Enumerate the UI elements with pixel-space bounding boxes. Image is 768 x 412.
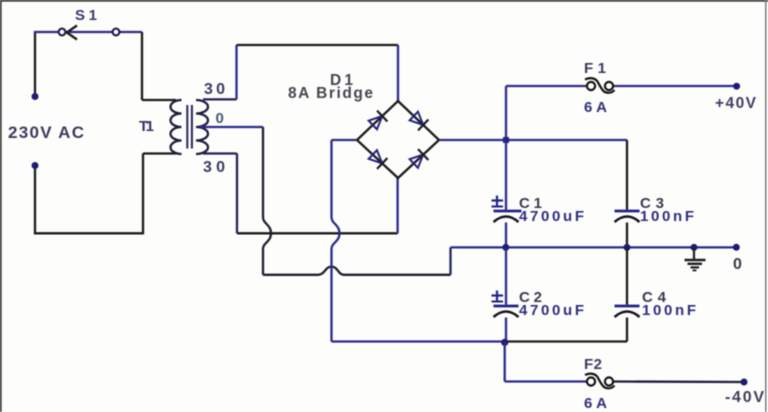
wire: bridge top vertical (397, 45, 399, 101)
svg-text:-40V: -40V (725, 389, 764, 406)
wire: F1 rail (506, 85, 586, 87)
transformer T1 secondary coil (196, 100, 208, 154)
wire: secondary bottom vertical down (236, 154, 238, 234)
svg-text:6A: 6A (584, 395, 607, 412)
wire: centre tap vertical with hop over row A (263, 127, 271, 275)
wire: F2 rail right (614, 380, 744, 383)
capacitor C3 (615, 211, 640, 222)
wire: bridge left stub (332, 139, 358, 141)
wire: C3 lead lower (626, 223, 628, 248)
svg-text:8A Bridge: 8A Bridge (288, 85, 373, 102)
wire: primary top vertical (141, 32, 143, 100)
wire: secondary top horizontal (203, 98, 237, 100)
node: junction C1/C2 on 0 rail (502, 244, 509, 251)
transformer T1 primary coil (171, 100, 182, 154)
wire: C2 lead lower (505, 318, 507, 343)
node: AC terminal lower dot (32, 162, 39, 169)
wire: bridge bottom vertical (396, 178, 398, 233)
node: junction C3/C4 on 0 rail (624, 244, 631, 251)
junction square at plus node (503, 137, 509, 143)
diode D1b top-right (409, 111, 429, 131)
capacitor C2 (492, 291, 519, 318)
wire: plus riser to F1 rail (505, 86, 507, 140)
wire: F2 rail left (505, 380, 586, 382)
diode D1c bottom-left (368, 149, 388, 169)
wire: minus rail vertical with hop over row A (332, 140, 340, 342)
wire: C4 lead upper (626, 247, 628, 304)
bridge rectifier D1 diamond (357, 101, 439, 178)
wire: top rail through switch (34, 31, 142, 33)
wire: bridge right stub to C3 column (439, 139, 627, 141)
wire: AC source left vertical lower (34, 166, 36, 234)
node: junction ground on 0 rail (691, 244, 698, 251)
node: junction minus rail (501, 339, 508, 346)
wire: bottom of primary loop (34, 232, 143, 234)
svg-text:F1: F1 (584, 60, 606, 77)
ground symbol (685, 247, 706, 270)
wire: primary bottom vertical (142, 154, 144, 235)
wire: row A horizontal (secondary bottom to bridge bottom) (237, 232, 398, 234)
svg-text:100nF: 100nF (642, 302, 696, 319)
wire: primary top horizontal (142, 99, 176, 101)
svg-text:30: 30 (203, 159, 225, 176)
capacitor C1 (492, 196, 522, 223)
svg-text:F2: F2 (584, 356, 602, 373)
svg-text:0: 0 (216, 110, 224, 127)
wire: centre tap horizontal (200, 126, 263, 128)
wire: secondary bottom horizontal (203, 152, 237, 154)
wire: C3 lead upper (626, 140, 628, 210)
switch S1 (59, 26, 120, 40)
svg-text:0: 0 (733, 256, 742, 273)
wire: C4 lead lower (626, 318, 628, 342)
svg-text:+40V: +40V (715, 95, 757, 112)
svg-text:100nF: 100nF (640, 208, 694, 225)
wire: primary bottom horizontal (143, 152, 176, 154)
capacitor C4 (615, 306, 640, 317)
diode D1d bottom-right (409, 149, 429, 169)
svg-text:S1: S1 (75, 7, 97, 24)
wire: C2 lead upper (505, 247, 507, 304)
wire: minus rail bottom horizontal right part (505, 340, 627, 342)
node: -40V terminal (741, 379, 748, 386)
fuse F1 (585, 78, 615, 93)
wire: row B riser to 0 rail (449, 247, 451, 274)
wire: top horizontal to bridge (237, 44, 399, 46)
node: AC terminal upper dot (32, 93, 39, 100)
wire: 0V rail (451, 246, 737, 248)
wire: F2 riser (504, 342, 506, 382)
node: 0 terminal (733, 244, 740, 251)
transformer T1 core (186, 105, 188, 149)
fuse F2 (585, 374, 615, 389)
svg-text:T1: T1 (139, 118, 154, 135)
wire: minus rail bottom horizontal left part (332, 340, 505, 342)
svg-text:6A: 6A (584, 99, 607, 116)
wire: AC source left vertical upper (34, 32, 36, 97)
svg-text:230V AC: 230V AC (8, 123, 84, 142)
wire: C1 lead upper (505, 140, 507, 210)
wire: row B horizontal with hop over minus rail vertical (263, 267, 451, 275)
node: +40V terminal (733, 83, 740, 90)
svg-text:30: 30 (204, 81, 225, 98)
diode D1a top-left (368, 111, 388, 131)
wire: C1 lead lower (505, 223, 507, 248)
wire: secondary top vertical up (235, 45, 237, 99)
